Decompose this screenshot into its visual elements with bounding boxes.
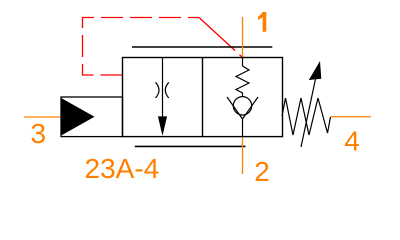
svg-text:2: 2	[254, 156, 270, 187]
right position: check valve spring	[236, 66, 249, 97]
right position: check valve seat right	[243, 97, 259, 119]
svg-text:4: 4	[344, 125, 360, 156]
adjustment arrow head	[309, 61, 322, 80]
wire: red dashed pilot line	[83, 18, 200, 76]
right position: line to bottom	[242, 119, 244, 137]
svg-text:23A-4: 23A-4	[85, 153, 160, 184]
left position: restriction arc right	[165, 82, 169, 98]
adjustment arrow shaft	[301, 79, 316, 147]
left position: flow arrow down	[158, 116, 167, 135]
svg-text:3: 3	[31, 118, 47, 149]
right position: check valve ball	[233, 97, 251, 115]
label port 1	[258, 12, 266, 32]
right position: line from top	[242, 58, 244, 67]
valve body: position divider	[202, 58, 204, 137]
node 3: port 3 orange line	[24, 116, 61, 118]
spring (external, adjustable)	[282, 98, 331, 135]
wire: top horizontal line	[132, 46, 272, 48]
node 2: port 2 orange line	[242, 137, 244, 174]
node 4: port 4 orange line	[331, 116, 372, 118]
right position: check valve seat left	[227, 97, 243, 119]
valve body: two-position envelope	[123, 58, 283, 137]
pilot actuator triangle	[61, 99, 94, 136]
left position: restriction arc left	[156, 82, 160, 98]
pilot actuator box	[61, 97, 123, 137]
wire: red dashed pilot diagonal	[199, 18, 242, 58]
left position: flow line	[162, 58, 164, 119]
node 1: port 1 orange line	[242, 17, 244, 58]
wire: bottom horizontal line	[135, 145, 246, 147]
